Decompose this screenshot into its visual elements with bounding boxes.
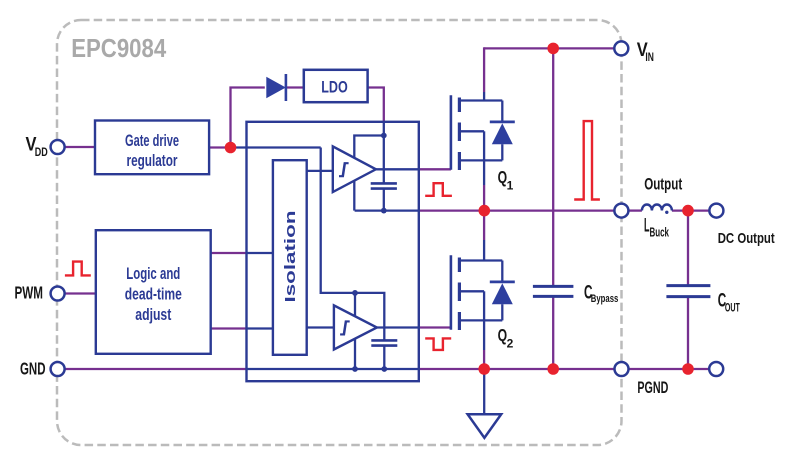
wire Q2 gate — [377, 326, 419, 328]
upper buffer supply stub — [354, 136, 384, 159]
board boundary (dashed) — [57, 20, 622, 445]
label VDD — [26, 135, 49, 160]
capacitor CBypass — [533, 286, 574, 296]
wire ground rail — [65, 368, 247, 370]
svg-text:2: 2 — [507, 337, 514, 351]
inductor LBuck — [642, 205, 672, 214]
junction VDD node (red) — [225, 142, 237, 154]
logic and dead-time adjust block — [96, 230, 211, 354]
diode D1 — [266, 74, 286, 101]
label COUT — [718, 291, 740, 315]
transistor Q2 — [451, 255, 502, 330]
label CBypass — [584, 282, 618, 305]
LDO block — [304, 70, 368, 102]
svg-text:PWM: PWM — [15, 282, 44, 302]
capacitor C2 (lower driver) — [371, 340, 397, 345]
svg-text:Gate drive: Gate drive — [125, 132, 179, 150]
waveform PWM pulse — [65, 262, 91, 276]
terminal switch-node output — [614, 204, 628, 218]
junction ground CBypass (red) — [547, 363, 559, 375]
junction ground COUT (red) — [682, 363, 694, 375]
wire logic output lower — [211, 327, 247, 329]
terminal PGND right — [709, 362, 723, 376]
gate driver IC outline U1 — [247, 122, 419, 381]
terminal DC output — [709, 204, 723, 218]
svg-text:LDO: LDO — [321, 78, 348, 97]
svg-text:IN: IN — [645, 50, 654, 64]
wire Q1 gate — [376, 168, 419, 170]
wire VDD node to lower driver feed — [231, 146, 321, 148]
junction lower stub bottom — [352, 366, 358, 372]
svg-text:DD: DD — [35, 145, 48, 159]
junction lower rail top — [352, 290, 358, 296]
junction upper rail top — [381, 133, 387, 139]
junction VIN rail (red) — [547, 43, 559, 55]
svg-text:GND: GND — [20, 358, 46, 378]
transistor Q1 — [451, 95, 502, 170]
svg-text:Output: Output — [644, 175, 682, 194]
isolation block — [273, 160, 307, 355]
junction lower cap bottom — [381, 366, 387, 372]
wire Q1 drain riser — [483, 47, 485, 92]
lower driver supply feed — [321, 148, 385, 341]
body diode of Q1 — [490, 101, 515, 161]
lower buffer supply stub — [354, 293, 356, 316]
junction output node (red) — [682, 205, 694, 217]
upper buffer ground stub — [353, 181, 355, 211]
terminal GND — [51, 362, 65, 376]
svg-text:1: 1 — [507, 179, 514, 193]
wire gate-drive-regulator output — [209, 146, 230, 148]
wire switch node — [355, 209, 419, 211]
waveform switch node pulse — [574, 121, 600, 199]
op-amp buffer lower (schmitt) — [334, 305, 377, 349]
terminal VIN — [614, 41, 628, 55]
lower buffer ground stub — [354, 339, 356, 370]
label Q1 — [498, 167, 514, 193]
wire switch node to inductor — [628, 209, 642, 211]
svg-text:adjust: adjust — [135, 306, 171, 324]
wire COUT riser — [687, 211, 689, 286]
svg-text:EPC9084: EPC9084 — [71, 33, 166, 63]
terminal PGND — [615, 362, 629, 376]
wire Q2 drain riser — [483, 211, 485, 240]
wire PWM input — [65, 292, 96, 294]
lower buffer input wire — [307, 326, 334, 328]
junction upper rail bottom — [381, 208, 387, 214]
wire inductor to DC output — [672, 209, 710, 211]
svg-text:PGND: PGND — [637, 378, 668, 397]
svg-text:regulator: regulator — [127, 152, 178, 170]
junction ground Q2 (red) — [478, 363, 490, 375]
svg-text:DC Output: DC Output — [718, 230, 775, 247]
wire CBypass riser — [552, 48, 554, 286]
svg-text:Logic and: Logic and — [126, 265, 180, 283]
svg-text:Isolation: Isolation — [282, 211, 299, 303]
wire ground stub — [483, 369, 485, 414]
upper driver supply rail — [383, 122, 385, 184]
label VIN — [637, 40, 654, 64]
svg-text:Bypass: Bypass — [591, 293, 619, 305]
wire VIN rail — [484, 47, 615, 49]
wire Q1 source drop — [483, 160, 485, 185]
svg-text:OUT: OUT — [725, 303, 740, 315]
capacitor C1 (bootstrap upper) — [371, 183, 397, 188]
label LBuck — [644, 215, 669, 239]
wire logic output upper — [211, 252, 247, 254]
wire VDD input — [64, 146, 95, 148]
svg-text:dead-time: dead-time — [125, 286, 182, 304]
op-amp buffer upper (schmitt) — [333, 146, 376, 192]
wire Q2 source drop — [483, 320, 485, 350]
ground — [468, 414, 502, 438]
junction switch node (red) — [479, 205, 491, 217]
wire VDD riser to diode — [231, 88, 265, 148]
wire LDO output to driver rail — [367, 88, 383, 122]
waveform upper gate pulse — [425, 183, 452, 196]
terminal PWM — [51, 287, 65, 301]
capacitor COUT — [666, 286, 710, 297]
body diode of Q2 — [490, 261, 515, 321]
waveform lower gate pulse (inverted) — [425, 338, 451, 350]
upper buffer input wire — [307, 170, 333, 172]
label Q2 — [498, 325, 514, 351]
terminal VDD — [51, 140, 65, 154]
gate drive regulator block — [95, 121, 209, 175]
wire diode to LDO — [287, 86, 304, 88]
svg-text:Buck: Buck — [650, 225, 670, 239]
